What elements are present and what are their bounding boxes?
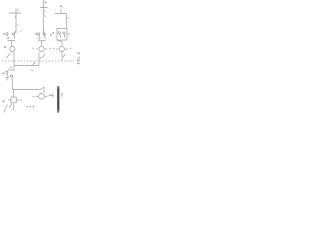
terminal bar right of D4 [45,95,48,97]
label right of B2 [20,100,21,101]
label 53 [53,48,54,49]
node label 50 [10,67,11,68]
terminal left of X1 [51,93,53,97]
label 49 [49,48,50,49]
label 70 [3,101,5,103]
label 52 with leader [33,62,36,65]
wire horizontal lower [12,87,44,93]
wire stage B vertical top [43,0,45,33]
crystal bar X1 (thick) [57,86,59,113]
terminal bar left of D2 [36,48,39,50]
transistor Q2 (stage A right) [13,33,15,35]
leader from label 70 [4,105,8,113]
FIG. 4 caption [76,52,81,66]
transistor Q5 (stage C left) [58,32,60,34]
transistor Q7 (lower left) [6,71,8,73]
varactor D4 (lower mid circle) [39,94,45,100]
terminal bar right of D3 [65,48,68,50]
wire down from Q8 [11,82,13,90]
tick label on wire C [67,17,68,18]
terminal right of X1 [62,93,64,97]
varactor D3 (stage C circle) [59,46,64,51]
wire stage C vertical [65,14,67,29]
node label 42 [45,2,47,4]
wire from D1 down to bus [13,52,15,61]
power rail bar B [40,7,48,9]
power rail bar C [55,13,67,15]
tick label on wire B lower [44,15,45,16]
transistor Q8 [11,75,13,77]
wire stage A vertical [15,13,17,33]
wire stub above rail A [15,9,17,14]
stray label speck [20,31,21,32]
wire joining pair A [8,41,16,46]
wire joining pair C [57,41,62,46]
wire into box B2 [12,90,14,98]
wire down from bus at left [8,61,14,70]
terminal bar left of D3 [56,48,59,50]
label phi1 [3,33,4,35]
varactor D1 (stage A circle) [10,46,15,51]
label phi3 [53,32,54,34]
label right of box [68,33,69,34]
label right of pair B [51,34,52,36]
leader below D2 [42,54,45,57]
label 33 [33,48,34,49]
wire stub above rail C [60,9,62,14]
ellipsis dots [26,106,27,107]
wire joining pair B [38,41,46,46]
wire from D2 down through bus [38,52,40,65]
wire from D3 down to bus [61,52,63,61]
component box B2 [11,97,16,103]
tick label on wire A upper [15,17,16,18]
label 48 [49,95,50,96]
power rail bar A [9,12,21,14]
terminal bar right of B2 [16,99,19,101]
transistor Q6 (stage C right) [63,32,65,34]
label 46 [5,46,7,47]
bus line (dashed) [2,60,74,62]
terminal bar left of B2 [8,99,11,101]
terminal bar right of D2 [45,48,48,50]
cell box U1 [57,29,67,41]
tick label on wire B upper [44,10,45,11]
label phi2 [36,33,37,35]
label 34 [33,96,34,97]
leader arrow to B2 [9,103,12,107]
transistor Q4 (stage B right) [43,33,45,35]
node label 40 (stage A top) [17,9,19,11]
wire below B2 [13,104,15,110]
svg-text:FIG. 4: FIG. 4 [76,52,81,66]
transistor Q3 (stage B left) [38,33,40,35]
node label 44 (stage C top) [60,6,62,8]
node label near bus B [40,57,41,58]
terminal bar left of D4 [36,95,39,97]
output wire horizontal [14,65,39,67]
leader arrow to D1 [6,53,11,58]
label 69 [70,48,71,49]
label b below wire [31,69,33,70]
leader below D3 [63,54,66,57]
varactor D2 (stage B circle) [39,46,44,51]
tick label on wire A lower [17,25,18,26]
label left of X1 [50,94,51,95]
transistor Q1 (stage A left) [6,33,8,35]
label phi4 [3,73,4,75]
